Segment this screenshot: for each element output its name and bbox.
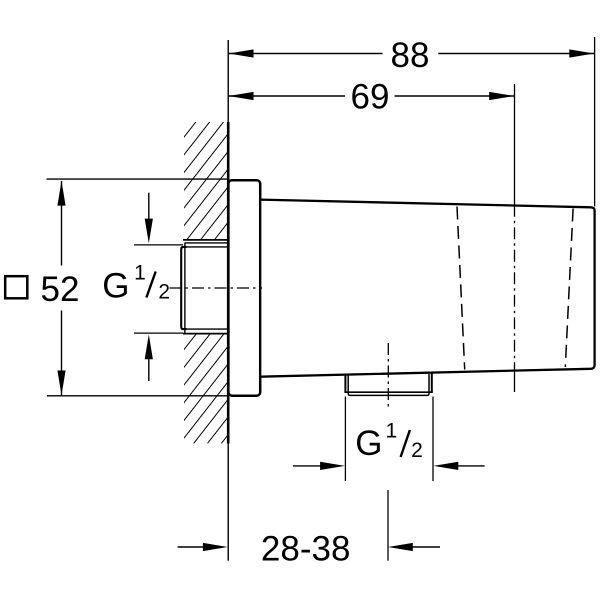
dimension 52 [5,179,228,396]
svg-text:28-38: 28-38 [261,529,351,568]
outlet thread dimension (arrows outside) [293,397,485,482]
svg-text:88: 88 [391,36,430,75]
svg-text:2: 2 [411,439,423,462]
svg-text:2: 2 [158,281,170,304]
hidden cone edge left (dashed) [457,207,465,370]
inlet centerline (horizontal dash-dot) [170,287,263,289]
svg-text:1: 1 [385,419,397,442]
square symbol [5,276,27,298]
wall face line [227,40,229,561]
dimension 88 [228,36,594,75]
svg-text:52: 52 [41,270,80,309]
flange (escutcheon) [228,180,260,396]
holder centerline (69 extension line, x=514.5) [514,84,516,392]
label G 1/2 left [102,262,170,306]
hidden cone edge right (dashed) [565,209,573,368]
inlet thread dimension arrows [134,193,183,381]
svg-text:G: G [102,267,129,306]
svg-text:69: 69 [351,78,390,117]
label G 1/2 bottom [355,419,423,462]
wall hatching lower band [184,334,229,444]
right extension line (x=594.5) [594,37,596,207]
bottom outlet thread (G 1/2 down) [344,372,432,396]
body outline [260,200,594,377]
wall hatching upper band [184,122,229,240]
dimension 69 [228,78,514,117]
outlet centerline (vertical dash-dot) [387,343,389,561]
svg-text:G: G [355,424,382,463]
svg-text:1: 1 [134,262,146,285]
dimension 28-38 [178,529,440,568]
wall inlet thread (G 1/2 into wall) [181,240,228,334]
